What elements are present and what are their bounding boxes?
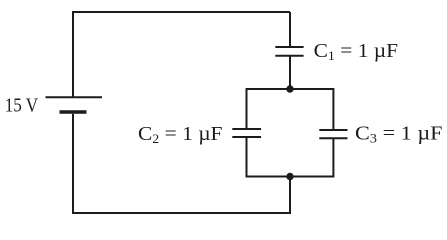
battery B1 15 V : short plate (-) <box>60 110 87 114</box>
wire right branch upper (node A rail to C3) <box>332 88 334 129</box>
wire node B to bottom <box>289 177 291 215</box>
wire left branch upper (node A rail to C2) <box>246 88 248 128</box>
wire parallel-loop top rail <box>247 88 334 90</box>
wire bottom <box>72 212 290 214</box>
capacitor C1 plates <box>275 47 303 56</box>
battery B1 15 V : long plate (+) <box>46 96 103 98</box>
wire left branch lower (C2 to node B rail) <box>246 138 248 178</box>
node A junction dot <box>286 85 293 92</box>
wire parallel-loop bottom rail <box>247 176 334 178</box>
svg-text:15 V: 15 V <box>5 95 39 117</box>
wire left upper (top to battery +) <box>72 11 74 97</box>
wire left lower (battery - to bottom) <box>72 114 74 213</box>
capacitor C3 plates <box>319 130 347 138</box>
svg-text:C2 = 1 µF: C2 = 1 µF <box>138 123 223 146</box>
svg-text:C3 = 1 µF: C3 = 1 µF <box>355 123 443 146</box>
wire C1 to node A <box>289 57 291 90</box>
svg-text:C1 = 1 µF: C1 = 1 µF <box>314 40 399 63</box>
node B junction dot <box>286 173 293 180</box>
wire right upper (top to C1) <box>289 12 291 46</box>
capacitor C2 plates <box>232 129 261 137</box>
wire top (battery + to C1) <box>73 11 290 13</box>
wire right branch lower (C3 to node B rail) <box>332 139 334 178</box>
